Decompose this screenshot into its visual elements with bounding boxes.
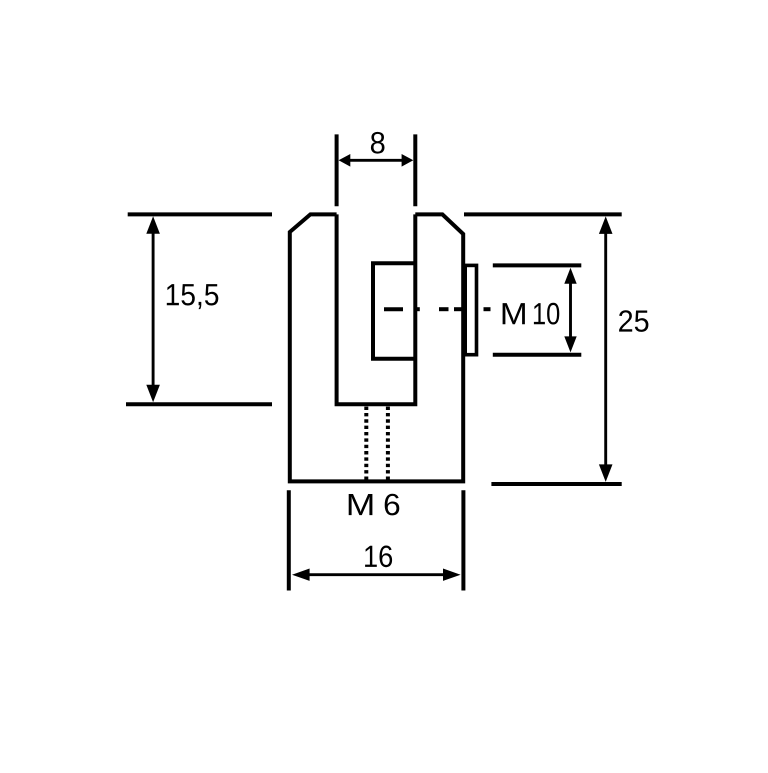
label M of M 10 <box>503 303 525 324</box>
arrowhead 8 right <box>402 154 414 167</box>
dimension line 15,5 <box>152 232 155 387</box>
label 8 <box>371 132 385 154</box>
extension line top right <box>464 212 622 216</box>
label 16 <box>365 546 392 568</box>
arrowhead 16 left <box>292 569 310 581</box>
M6 thread dotted line right <box>386 407 390 481</box>
protruding stud rectangle <box>465 265 476 354</box>
body outline <box>290 214 463 481</box>
extension line top left <box>128 212 272 216</box>
centerline dash 5 <box>484 307 491 311</box>
arrowhead 8 left <box>339 154 351 167</box>
M6 thread dotted line left <box>364 407 368 481</box>
label M of M 6 <box>349 494 373 515</box>
arrowhead 16 right <box>443 569 461 581</box>
extension line bottom right <box>491 482 621 486</box>
extension line M10 top <box>493 263 582 267</box>
label 25 <box>619 310 648 332</box>
label 6 of M 6 <box>385 494 400 516</box>
extension line slot left <box>335 134 339 206</box>
dimension line 25 <box>604 233 607 467</box>
centerline dash 2 <box>414 307 420 311</box>
extension line M10 bottom <box>493 353 582 357</box>
label 15,5 <box>167 284 219 309</box>
slot (U groove) <box>337 214 416 404</box>
extension line slot right <box>413 134 417 206</box>
centerline dash 4 <box>454 307 463 311</box>
dimension line M10 <box>569 282 572 338</box>
centerline dash 1 <box>384 307 403 311</box>
extension line slot bottom left <box>126 402 272 406</box>
dimension line 16 <box>308 573 445 576</box>
arrowhead 15,5 top <box>146 216 160 234</box>
arrowhead M10 bottom <box>564 336 576 352</box>
arrowhead 25 bottom <box>599 464 613 482</box>
extension line 16 right <box>461 490 465 590</box>
extension line 16 left <box>287 490 291 590</box>
centerline dash 3 <box>439 307 449 311</box>
arrowhead M10 top <box>564 268 576 284</box>
arrowhead 25 top <box>599 216 613 234</box>
label 10 of M 10 <box>534 303 559 325</box>
M10 boss rectangle <box>373 263 415 359</box>
dimension line 8 <box>349 159 403 162</box>
arrowhead 15,5 bottom <box>146 385 160 403</box>
